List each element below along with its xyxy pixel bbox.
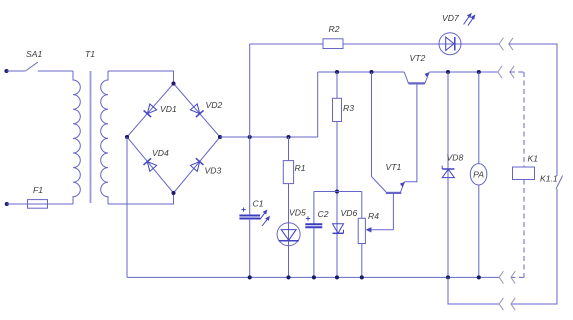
wire bridge left down — [126, 137, 128, 277]
svg-text:C1: C1 — [253, 199, 264, 209]
contact K1.1 — [556, 176, 563, 190]
diode VD4 — [144, 158, 157, 171]
wire plus rail from bridge right — [220, 136, 318, 138]
svg-text:T1: T1 — [85, 49, 95, 59]
transistor VT2 — [404, 72, 429, 83]
LED VD5 — [260, 184, 300, 278]
node C2 bottom — [312, 275, 316, 279]
LED VD7 — [439, 13, 475, 55]
diode VD1 — [144, 104, 157, 117]
svg-text:R1: R1 — [295, 163, 306, 173]
node divider junction — [335, 189, 339, 193]
fuse F1 — [28, 200, 48, 209]
svg-text:VD2: VD2 — [206, 100, 223, 110]
wire dashed relay bottom — [511, 180, 524, 278]
node PA top — [477, 70, 481, 74]
resistor R2 — [323, 39, 343, 49]
svg-text:VT1: VT1 — [386, 162, 402, 172]
resistor R3 — [333, 98, 342, 121]
diode VD2 — [190, 104, 203, 117]
node R3 top — [335, 70, 339, 74]
wire VT2 emitter rail — [429, 71, 498, 73]
potentiometer R4 — [358, 192, 393, 278]
node input top-left terminal — [4, 69, 8, 73]
node C1 bottom — [248, 275, 252, 279]
relay coil K1 — [513, 167, 535, 180]
svg-text:K1: K1 — [528, 154, 539, 164]
zener VD6 — [333, 224, 344, 234]
svg-text:C2: C2 — [318, 209, 329, 219]
wire switch to transformer primary — [38, 70, 73, 72]
node VD8 bottom — [446, 275, 450, 279]
node bridge left — [125, 135, 129, 139]
svg-text:VD5: VD5 — [289, 208, 306, 218]
connector pair bottom rail — [499, 271, 515, 283]
transformer T1 primary winding — [73, 71, 80, 204]
connector pair lower rail — [499, 298, 515, 310]
wire lower return rail — [448, 277, 499, 304]
node rail R1 tap — [286, 135, 290, 139]
wire contact down to lower rail — [511, 189, 557, 304]
wire secondary top to bridge — [108, 71, 174, 84]
switch SA1 — [25, 62, 38, 71]
node rail C1 tap — [248, 135, 252, 139]
svg-text:SA1: SA1 — [26, 49, 42, 59]
svg-text:VD3: VD3 — [205, 166, 222, 176]
meter PA — [470, 72, 487, 277]
node VD6 bottom — [335, 275, 339, 279]
svg-text:VD6: VD6 — [341, 208, 358, 218]
node bridge bottom — [171, 191, 175, 195]
node VD8 top — [446, 70, 450, 74]
svg-text:PA: PA — [473, 170, 484, 180]
wire R2 to connector — [343, 43, 499, 45]
node R4 bottom — [360, 275, 364, 279]
wire top rail to R2 — [250, 43, 323, 45]
wire rail up to top rail — [249, 44, 251, 137]
wire R3 top lead — [336, 72, 338, 98]
wire connector to right edge corner — [509, 44, 557, 176]
resistor R1 — [283, 137, 293, 184]
wire input top to switch — [7, 70, 26, 72]
svg-text:R2: R2 — [329, 24, 340, 34]
svg-text:VT2: VT2 — [410, 53, 426, 63]
svg-text:VD7: VD7 — [442, 13, 460, 23]
svg-text:K1.1: K1.1 — [540, 174, 558, 184]
transformer T1 core — [90, 71, 92, 203]
diode VD3 — [190, 158, 203, 171]
wire dashed to relay — [510, 72, 524, 167]
node input bottom-left terminal — [5, 202, 9, 206]
node bridge right — [218, 135, 222, 139]
transistor VT1 — [372, 72, 417, 193]
capacitor C2 — [305, 192, 322, 278]
wire bottom rail — [127, 276, 499, 278]
connector pair relay rail — [498, 66, 514, 78]
svg-text:F1: F1 — [33, 185, 43, 195]
wire R3 bottom through VD6 to bottom rail — [336, 122, 338, 278]
svg-text:R4: R4 — [368, 211, 379, 221]
svg-text:R3: R3 — [343, 103, 354, 113]
wire divider horizontal — [314, 191, 362, 193]
svg-text:VD8: VD8 — [447, 153, 464, 163]
wire bottom input through fuse to primary — [7, 203, 73, 205]
node bridge top — [171, 81, 175, 85]
node VT1 collector tap — [369, 70, 373, 74]
wire mid rail — [318, 71, 405, 73]
node VD5 bottom — [286, 275, 290, 279]
svg-text:VD4: VD4 — [152, 148, 169, 158]
wire plus rail riser — [317, 72, 319, 137]
connector pair top rail — [499, 38, 513, 50]
bridge diamond wires — [127, 84, 220, 194]
wire secondary bottom to bridge — [108, 193, 174, 204]
transformer T1 secondary winding — [101, 71, 108, 204]
svg-text:VD1: VD1 — [160, 104, 177, 114]
zener VD8 — [442, 72, 454, 277]
capacitor C1 — [239, 137, 260, 277]
node PA bottom — [477, 275, 481, 279]
